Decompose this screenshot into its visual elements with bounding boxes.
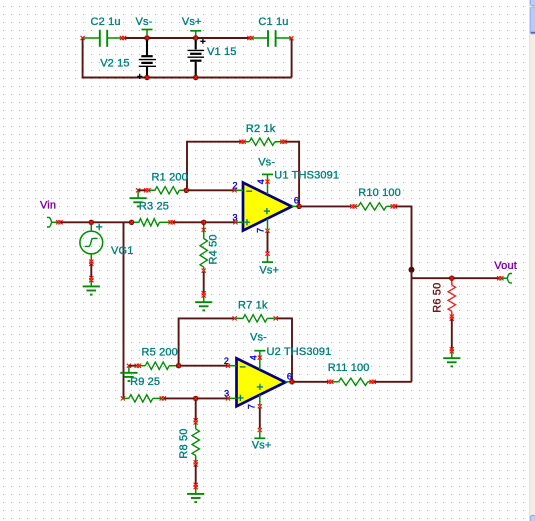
- svg-text:7: 7: [255, 228, 265, 233]
- ground pin R5 left: [127, 364, 131, 368]
- op-amp U2 plus power: [257, 384, 263, 390]
- svg-text:C1 1u: C1 1u: [258, 16, 288, 28]
- scrollbar bottom button: [530, 515, 535, 521]
- node R3-R4-pin3: [201, 220, 206, 225]
- wire down-branch column: [123, 222, 125, 398]
- node R9-R8-pin3: [193, 396, 198, 401]
- svg-text:V2 15: V2 15: [100, 58, 130, 70]
- capacitor C1: [247, 36, 251, 40]
- wire output column: [411, 206, 413, 382]
- wire Vout row: [412, 277, 500, 279]
- svg-text:U2 THS3091: U2 THS3091: [267, 346, 332, 358]
- svg-text:VG1: VG1: [111, 245, 133, 257]
- resistor R11: [327, 380, 331, 384]
- node R3 left: [129, 220, 134, 225]
- svg-text:R2 1k: R2 1k: [246, 123, 276, 135]
- ground R6: [451, 352, 453, 359]
- wire R7 feedback row: [179, 317, 234, 319]
- resistor R7: [233, 316, 237, 320]
- scrollbar top button: [530, 0, 535, 6]
- svg-text:3: 3: [232, 212, 237, 222]
- resistor R10: [350, 204, 354, 208]
- op-amp U1 output stub: [292, 205, 298, 207]
- plus mark V1: [200, 39, 205, 44]
- svg-text:R3 25: R3 25: [139, 201, 169, 213]
- op-amp U1 plus power: [264, 208, 270, 214]
- port Vout: [497, 276, 501, 280]
- resistor R3: [134, 221, 139, 223]
- svg-text:R1 200: R1 200: [152, 172, 188, 184]
- svg-text:Vin: Vin: [40, 200, 56, 212]
- op-amp U1 bottom power pin: [267, 219, 269, 229]
- wire R2 feedback row: [187, 141, 242, 143]
- svg-text:Vs-: Vs-: [250, 331, 267, 343]
- svg-text:R10 100: R10 100: [358, 187, 401, 199]
- op-amp U2 pin2 stub: [227, 365, 237, 367]
- node VG1 top: [89, 220, 94, 225]
- wire to U2 pin3: [197, 397, 227, 399]
- port Vin: [47, 217, 52, 227]
- svg-text:R4 50: R4 50: [208, 234, 220, 264]
- resistor R4: [202, 228, 206, 232]
- wire top rail: [124, 37, 250, 39]
- resistor R5: [129, 365, 136, 367]
- wire left branch: [82, 38, 84, 78]
- svg-text:R5 200: R5 200: [142, 346, 178, 358]
- wire U1 out to R10: [302, 205, 352, 207]
- ground VG1: [90, 281, 92, 287]
- svg-text:R11 100: R11 100: [328, 362, 370, 374]
- source VG1: [90, 225, 92, 232]
- plus mark V2: [137, 74, 142, 79]
- node R1-R2-pin2: [184, 188, 189, 193]
- wire U2 out to R11: [294, 381, 328, 383]
- op-amp U2 body: [237, 358, 286, 406]
- svg-text:R7 1k: R7 1k: [238, 300, 268, 312]
- op-amp U1 minus: [246, 190, 252, 192]
- wire Vin row: [61, 221, 131, 223]
- node V1 bottom: [193, 75, 198, 80]
- wire R6 to ground: [451, 319, 453, 348]
- wire R7 left column: [178, 318, 180, 366]
- scrollbar thumb: [530, 7, 535, 34]
- svg-text:R8 50: R8 50: [178, 428, 190, 458]
- resistor R1: [138, 189, 146, 191]
- svg-text:V1 15: V1 15: [207, 46, 237, 58]
- svg-text:C2 1u: C2 1u: [91, 16, 121, 28]
- wire R8 to ground: [195, 465, 197, 485]
- op-amp U1 body: [243, 183, 292, 231]
- wire R11 to output column: [374, 381, 411, 383]
- scrollbar track: [530, 0, 535, 521]
- wire feedback right column: [298, 141, 300, 207]
- plus mark VG1: [96, 224, 102, 230]
- svg-text:2: 2: [224, 356, 229, 366]
- op-amp U2 minus: [240, 366, 246, 368]
- svg-text:4: 4: [248, 355, 258, 360]
- svg-text:Vs-: Vs-: [258, 156, 275, 168]
- wire to U1 pin3: [205, 221, 235, 223]
- node V2 bottom: [144, 75, 149, 80]
- wire R10 to output column: [395, 205, 411, 207]
- wire VG1 to ground: [89, 260, 93, 264]
- op-amp U2 bottom power pin: [259, 395, 261, 405]
- svg-text:7: 7: [247, 404, 257, 409]
- resistor R6 selected: [451, 281, 453, 285]
- wire R4 to ground: [203, 272, 205, 293]
- op-amp U1 plus input: [244, 219, 250, 225]
- resistor R2: [239, 140, 243, 144]
- resistor R8: [194, 418, 198, 422]
- op-amp U2 output stub: [285, 381, 291, 383]
- ground R8: [195, 487, 197, 494]
- node R6 top: [449, 276, 454, 281]
- svg-text:U1 THS3091: U1 THS3091: [274, 170, 339, 182]
- svg-text:Vs+: Vs+: [182, 16, 202, 28]
- node output column joint: [409, 267, 415, 273]
- ground pin R1 left: [136, 188, 140, 192]
- op-amp U1 pin2 stub: [234, 189, 243, 191]
- svg-text:Vs-: Vs-: [136, 16, 153, 28]
- svg-text:R9 25: R9 25: [130, 376, 160, 388]
- op-amp U2 top power pin: [254, 350, 265, 352]
- node U1 output: [296, 204, 301, 209]
- capacitor C2: [81, 36, 85, 40]
- op-amp U2 plus input: [237, 395, 243, 401]
- svg-text:Vs+: Vs+: [259, 264, 279, 276]
- ground R4: [203, 296, 205, 302]
- svg-text:2: 2: [232, 180, 237, 190]
- wire to U2 pin2: [181, 365, 227, 367]
- wire R7 right column: [291, 318, 293, 382]
- op-amp U1 top power pin: [262, 173, 273, 175]
- resistor R9: [121, 396, 125, 400]
- battery V1: [195, 40, 197, 49]
- op-amp U1 pin3 stub: [235, 221, 244, 223]
- wire to U1 pin2: [189, 189, 234, 191]
- svg-text:R6 50: R6 50: [432, 283, 444, 313]
- svg-text:Vs+: Vs+: [252, 440, 272, 452]
- node R5-R7-pin2: [176, 363, 181, 368]
- battery V2: [146, 40, 148, 55]
- node U2 output: [289, 379, 294, 384]
- svg-text:4: 4: [256, 179, 266, 184]
- svg-text:3: 3: [224, 388, 229, 398]
- op-amp U2 pin3 stub: [227, 397, 237, 399]
- node Vs- top: [142, 29, 153, 31]
- svg-text:Vout: Vout: [494, 260, 517, 272]
- wire feedback left column: [186, 141, 188, 191]
- node Vs+ top: [190, 30, 201, 32]
